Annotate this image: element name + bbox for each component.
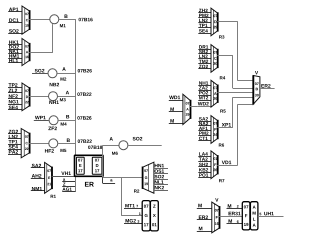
- wire U3 output to M3: [29, 96, 48, 98]
- wire ZG2 input: [8, 133, 21, 135]
- net label M: [198, 204, 202, 207]
- wire WD2 input: [198, 106, 211, 108]
- wire R1 output VH1 to ER: [52, 176, 75, 178]
- multiplexer R4 07-C-30: [211, 45, 217, 73]
- multiplexer U3 07-D-22: [22, 83, 29, 111]
- mixer circle M6: [119, 141, 128, 150]
- net label M: [199, 227, 203, 230]
- net label PM2: [199, 14, 208, 17]
- wire HL1 input: [8, 62, 22, 64]
- net label DC1: [9, 18, 19, 22]
- net label ER2: [261, 84, 270, 87]
- multiplexer U5 07-A-29: [183, 94, 190, 124]
- designator R4: [220, 76, 225, 79]
- wire PM2 input: [198, 17, 211, 19]
- net label AG1: [62, 188, 71, 191]
- wire NH1 input: [198, 85, 211, 87]
- net label WD1: [169, 96, 180, 99]
- wire M5 output B to bus: [58, 143, 76, 145]
- wire R2 output NK2: [154, 190, 168, 192]
- net label NK2: [155, 186, 164, 189]
- pin 6: [237, 220, 239, 223]
- net label B: [67, 139, 70, 142]
- wire PO1 input: [198, 177, 211, 179]
- net label SO2: [155, 175, 164, 178]
- net label CT1: [199, 137, 208, 140]
- wire PM2 input: [198, 135, 211, 137]
- wire DO2 input: [8, 49, 22, 51]
- wire TP2 input: [8, 87, 22, 89]
- wire TA2 input: [198, 161, 211, 163]
- net label PO1: [199, 173, 208, 176]
- wire R2 output OS1: [154, 173, 168, 175]
- net label SO2: [9, 29, 19, 33]
- mixer circle M3: [49, 92, 58, 101]
- wire R5 output to ER2 mux: [217, 92, 253, 94]
- net label XP1: [222, 123, 231, 126]
- wire SE4 input: [8, 109, 22, 111]
- multiplexer V 07-B-30 (ER2): [253, 76, 260, 105]
- wire LN2 input: [8, 138, 21, 140]
- wire LN2 input: [198, 22, 211, 24]
- pin 5: [260, 213, 262, 216]
- net label PO2: [199, 91, 208, 94]
- net label ZL2: [9, 89, 18, 92]
- net label SA2: [199, 117, 208, 120]
- net label Z: [63, 183, 65, 186]
- wire MT1 input: [124, 208, 142, 210]
- mixer circle M4: [49, 116, 58, 125]
- wire NG1 input: [8, 104, 22, 106]
- net label AP1: [9, 8, 18, 11]
- mixer circle M1: [50, 15, 59, 24]
- wire TP1 input: [8, 144, 21, 146]
- wire DC1 input: [8, 22, 22, 24]
- net label LN2: [199, 19, 208, 22]
- wire M pin6 input: [227, 223, 243, 225]
- designator M3: [60, 98, 66, 101]
- net label a: [110, 179, 112, 181]
- wire R4 output to ER2 mux: [217, 55, 233, 57]
- wire CT1 input: [198, 140, 211, 142]
- wire R2 output NL1: [154, 184, 168, 186]
- wire UH1 output pin5: [258, 216, 284, 218]
- wire U1 output to M1: [29, 19, 49, 21]
- wire ZA2 input: [198, 90, 211, 92]
- mixer circle M2: [48, 69, 57, 78]
- net label a: [63, 178, 65, 180]
- net label SB2: [199, 50, 208, 53]
- wire R3 output to ER2 mux: [217, 21, 237, 23]
- ER sub-block 07-D-17: [92, 157, 102, 174]
- wire SA2 input: [31, 167, 45, 169]
- multiplexer R1 07-E-21: [45, 162, 52, 193]
- label NH1: [49, 101, 59, 104]
- net label OS1: [155, 169, 164, 172]
- pin 2: [237, 205, 239, 208]
- net label NF2: [9, 94, 18, 97]
- wire M3 output A to bus: [58, 96, 76, 98]
- wire M2 output A to bus: [57, 73, 76, 75]
- wire PA2 input: [8, 154, 21, 156]
- designator R1: [51, 195, 56, 198]
- net label NL1: [155, 180, 164, 183]
- net label ER2: [199, 216, 208, 219]
- net label ZG2: [9, 130, 18, 134]
- net label LA4: [199, 152, 208, 155]
- net label NK1: [9, 50, 19, 53]
- wire AH2 input: [31, 178, 45, 180]
- multiplexer R5 07-A-26: [211, 80, 217, 107]
- net label TM2: [199, 60, 208, 63]
- designator M1: [60, 24, 66, 27]
- logic block Z-X-01: [150, 201, 158, 231]
- wire AP1 input: [8, 11, 22, 13]
- net label PM2: [199, 131, 208, 134]
- net label VH1: [61, 172, 71, 175]
- wire MG2 input: [124, 223, 142, 225]
- wire SB2 input: [198, 53, 211, 55]
- net label NM1: [32, 187, 42, 190]
- designator R3: [219, 35, 224, 38]
- net label B: [66, 115, 69, 118]
- designator M5: [61, 149, 67, 152]
- mixer circle M5: [49, 139, 58, 148]
- label HF2: [45, 149, 54, 152]
- wire NA2 input: [198, 125, 211, 127]
- net label 07B22: [78, 139, 92, 142]
- wire SO2 input: [8, 33, 22, 35]
- net label M: [228, 204, 232, 207]
- wire MT2 input: [198, 100, 211, 102]
- net label AF1: [199, 127, 208, 130]
- wire HK1 input: [8, 44, 22, 46]
- net label PA2: [9, 150, 18, 153]
- wire AF1 input: [198, 130, 211, 132]
- label V: [215, 198, 218, 201]
- net label VD1: [222, 161, 232, 164]
- net label HM1: [9, 54, 19, 57]
- wire SH2 input: [198, 166, 211, 168]
- wire WP1 input to M4: [34, 120, 49, 122]
- wire to M6 input A: [103, 145, 119, 147]
- wire NM1 input: [31, 190, 45, 192]
- net label NG1: [9, 100, 19, 104]
- wire NF2 input: [8, 98, 22, 100]
- block label ER: [85, 182, 94, 187]
- wire ZH2 input: [198, 12, 211, 14]
- net label ZA2: [199, 86, 208, 89]
- wire NK1 input: [8, 53, 22, 55]
- net label KB2: [199, 168, 208, 171]
- net label 07B22: [77, 92, 91, 95]
- wire M input: [197, 231, 212, 233]
- net label AH2: [32, 174, 42, 177]
- wire M1 output B to bus: [59, 19, 76, 21]
- wire U2 output up to M1: [29, 52, 53, 54]
- net label MT2: [199, 96, 208, 99]
- wire TM2 input: [198, 63, 211, 65]
- wire SG2 input to M2: [32, 73, 48, 75]
- wire tap Z: [62, 186, 76, 188]
- demultiplexer R2 07-G-19: [143, 162, 154, 193]
- wire DR1 input: [198, 49, 211, 51]
- net label WP1: [35, 116, 46, 119]
- wire M6 output SO2: [128, 145, 162, 147]
- wire SE4 input: [8, 149, 21, 151]
- bus wire 07B16/07B26/07B22 vertical: [75, 19, 77, 155]
- wire stub below ER left edge: [75, 176, 77, 191]
- designator R5: [220, 110, 225, 113]
- label NB2: [50, 83, 59, 86]
- wire ER2 input: [197, 219, 212, 221]
- multiplexer R7 01-F-26: [211, 151, 217, 179]
- net label 07B18: [88, 146, 102, 149]
- net label SE4: [199, 29, 208, 32]
- logic block 07-G-17: [142, 201, 150, 231]
- designator R2: [134, 189, 139, 192]
- wire ZL2 input: [8, 92, 22, 94]
- wire R2 output HN1: [154, 168, 168, 170]
- ER sub-block 07-E-17: [76, 157, 84, 174]
- designator R6: [219, 143, 224, 146]
- net label DR1: [199, 45, 208, 48]
- designator M6: [112, 152, 118, 155]
- net label 07B16: [79, 18, 93, 21]
- net label M: [170, 119, 174, 122]
- wire tap a: [62, 181, 76, 183]
- net label TP1: [199, 24, 208, 27]
- net label ZO2: [199, 65, 208, 68]
- wire ER2 output: [260, 88, 275, 90]
- net label SE4: [9, 145, 18, 149]
- wire M input: [197, 208, 212, 210]
- wire M4 output B to bus: [58, 120, 76, 122]
- net label M: [229, 219, 233, 222]
- wire U4 output to M5: [29, 143, 48, 145]
- net label 07B26: [78, 69, 92, 72]
- wire TP1 input: [198, 27, 211, 29]
- net label 07B26: [77, 116, 91, 119]
- net label NH1: [199, 81, 208, 84]
- net label DO2: [9, 45, 19, 49]
- wire R7 output VD1 to ER2 mux: [217, 165, 237, 167]
- net label TP1: [9, 140, 18, 143]
- wire LA4 input: [198, 156, 211, 158]
- wire ER output 07B18 to R2: [103, 177, 143, 179]
- wire M pin2 input: [227, 208, 243, 210]
- net label LN2: [9, 135, 18, 138]
- logic block 07-F-19: [242, 202, 250, 230]
- wire tap AG1: [62, 191, 76, 193]
- multiplexer U2 07-A-16: [22, 39, 29, 66]
- net label SG2: [35, 69, 45, 73]
- net label TP2: [9, 83, 18, 86]
- net label SH2: [199, 163, 208, 166]
- wire KB2 input: [198, 172, 211, 174]
- net label SA2: [32, 164, 41, 168]
- net label UH1: [264, 212, 274, 215]
- net label HN1: [155, 164, 164, 167]
- net label HK1: [9, 40, 19, 43]
- multiplexer U1 07-C-19: [22, 6, 29, 34]
- net label LN2: [199, 55, 208, 58]
- multiplexer U4 07-C-22: [21, 129, 29, 158]
- register block ER outer box: [75, 155, 104, 176]
- net label A: [110, 137, 113, 140]
- label V: [255, 71, 258, 74]
- wire M input: [169, 123, 183, 125]
- pin 3: [137, 220, 139, 223]
- net label ER31: [229, 212, 241, 216]
- net label HL1: [9, 59, 18, 62]
- net label NA2: [199, 122, 208, 125]
- wire M input: [169, 111, 183, 113]
- net label ZH2: [199, 9, 208, 12]
- label ZF2: [48, 127, 57, 130]
- net label MG2: [126, 219, 136, 223]
- logic block AMLA: [250, 202, 258, 230]
- wire PO2 input: [198, 95, 211, 97]
- multiplexer V2 07-F-16: [212, 202, 219, 233]
- wire SE4 input: [198, 33, 211, 35]
- wire HM1 input: [8, 58, 22, 60]
- net label A: [66, 91, 69, 94]
- multiplexer R6 07-P-24: [211, 116, 217, 144]
- net label SE4: [9, 106, 18, 110]
- wire tap a right of ER: [102, 177, 104, 183]
- wire WD1 input: [169, 100, 183, 102]
- pin 7: [136, 205, 138, 207]
- multiplexer R3 07-D-29: [211, 8, 217, 36]
- wire ZO2 input: [198, 68, 211, 70]
- wire V2 output ER31 to block: [219, 216, 242, 218]
- wire R2 output SO2: [154, 179, 168, 181]
- wire pin1 input from 07B18: [121, 177, 123, 215]
- designator M4: [61, 123, 67, 126]
- designator R7: [219, 179, 224, 182]
- wire U5 output WD2 to R5: [190, 106, 198, 108]
- net label B: [65, 15, 68, 18]
- net label WD2: [198, 102, 209, 105]
- net label A: [62, 67, 65, 70]
- wire SA2 input: [198, 121, 211, 123]
- wire LN2 input: [198, 58, 211, 60]
- wire 07B18 up to M6: [102, 145, 104, 177]
- net label M: [170, 107, 174, 110]
- pin 1: [139, 213, 141, 215]
- designator M2: [61, 77, 67, 80]
- net label MT1: [125, 204, 135, 207]
- net label TA2: [199, 157, 208, 160]
- wire R6 output XP1 to ER2 mux: [217, 127, 233, 129]
- net label SO2: [133, 137, 143, 141]
